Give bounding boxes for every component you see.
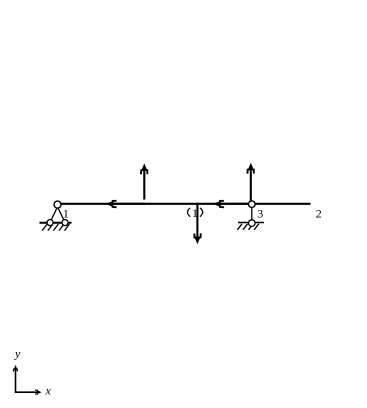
force F4 up arrowhead [247,163,254,174]
svg-text:3: 3 [257,207,263,221]
support at node 1: ground line [40,222,72,224]
svg-text:1: 1 [192,206,198,220]
support at node 1: left roller circle [47,220,53,226]
force F4 up arrow shaft (at node 3) [250,171,252,202]
triad x arrowhead [35,390,42,394]
force F1 up arrowhead [141,163,148,174]
beam element (1): member line from node 1 to node 2 [61,203,311,205]
triad y-axis [15,370,17,394]
support at node 3: ground line [238,222,264,224]
support at node 3: ground hatches [237,224,258,230]
support at node 1: right roller circle [62,220,68,226]
force F2 left arrow shaft (tail x=145 on beam) [112,203,145,205]
node 3 circle [249,201,256,208]
svg-text:2: 2 [316,207,322,221]
support at node 1: ground hatches [42,224,69,231]
force F3 down arrow shaft (at x=197) [196,203,198,237]
svg-text:y: y [14,346,21,360]
force F5 left arrowhead (tip x=213.6) [213,201,224,208]
node 1 circle [54,201,61,208]
support at node 1: triangle legs [50,207,65,222]
force F1 up arrow shaft (at x=144) [143,171,145,200]
support at node 3: link bar [251,206,253,222]
force F2 left arrowhead (tip x=106) [106,201,117,208]
triad x-axis [16,391,38,393]
force F3 down arrowhead [194,233,201,244]
support at node 3: lower hinge circle [249,220,256,227]
force F5 left arrow shaft (tail at node 3) [220,203,251,205]
svg-text:1: 1 [63,207,69,221]
svg-text:x: x [45,384,52,398]
element label ( 1): close paren [200,208,203,217]
element label ( 1): open paren [188,208,191,217]
triad y arrowhead [13,365,17,372]
